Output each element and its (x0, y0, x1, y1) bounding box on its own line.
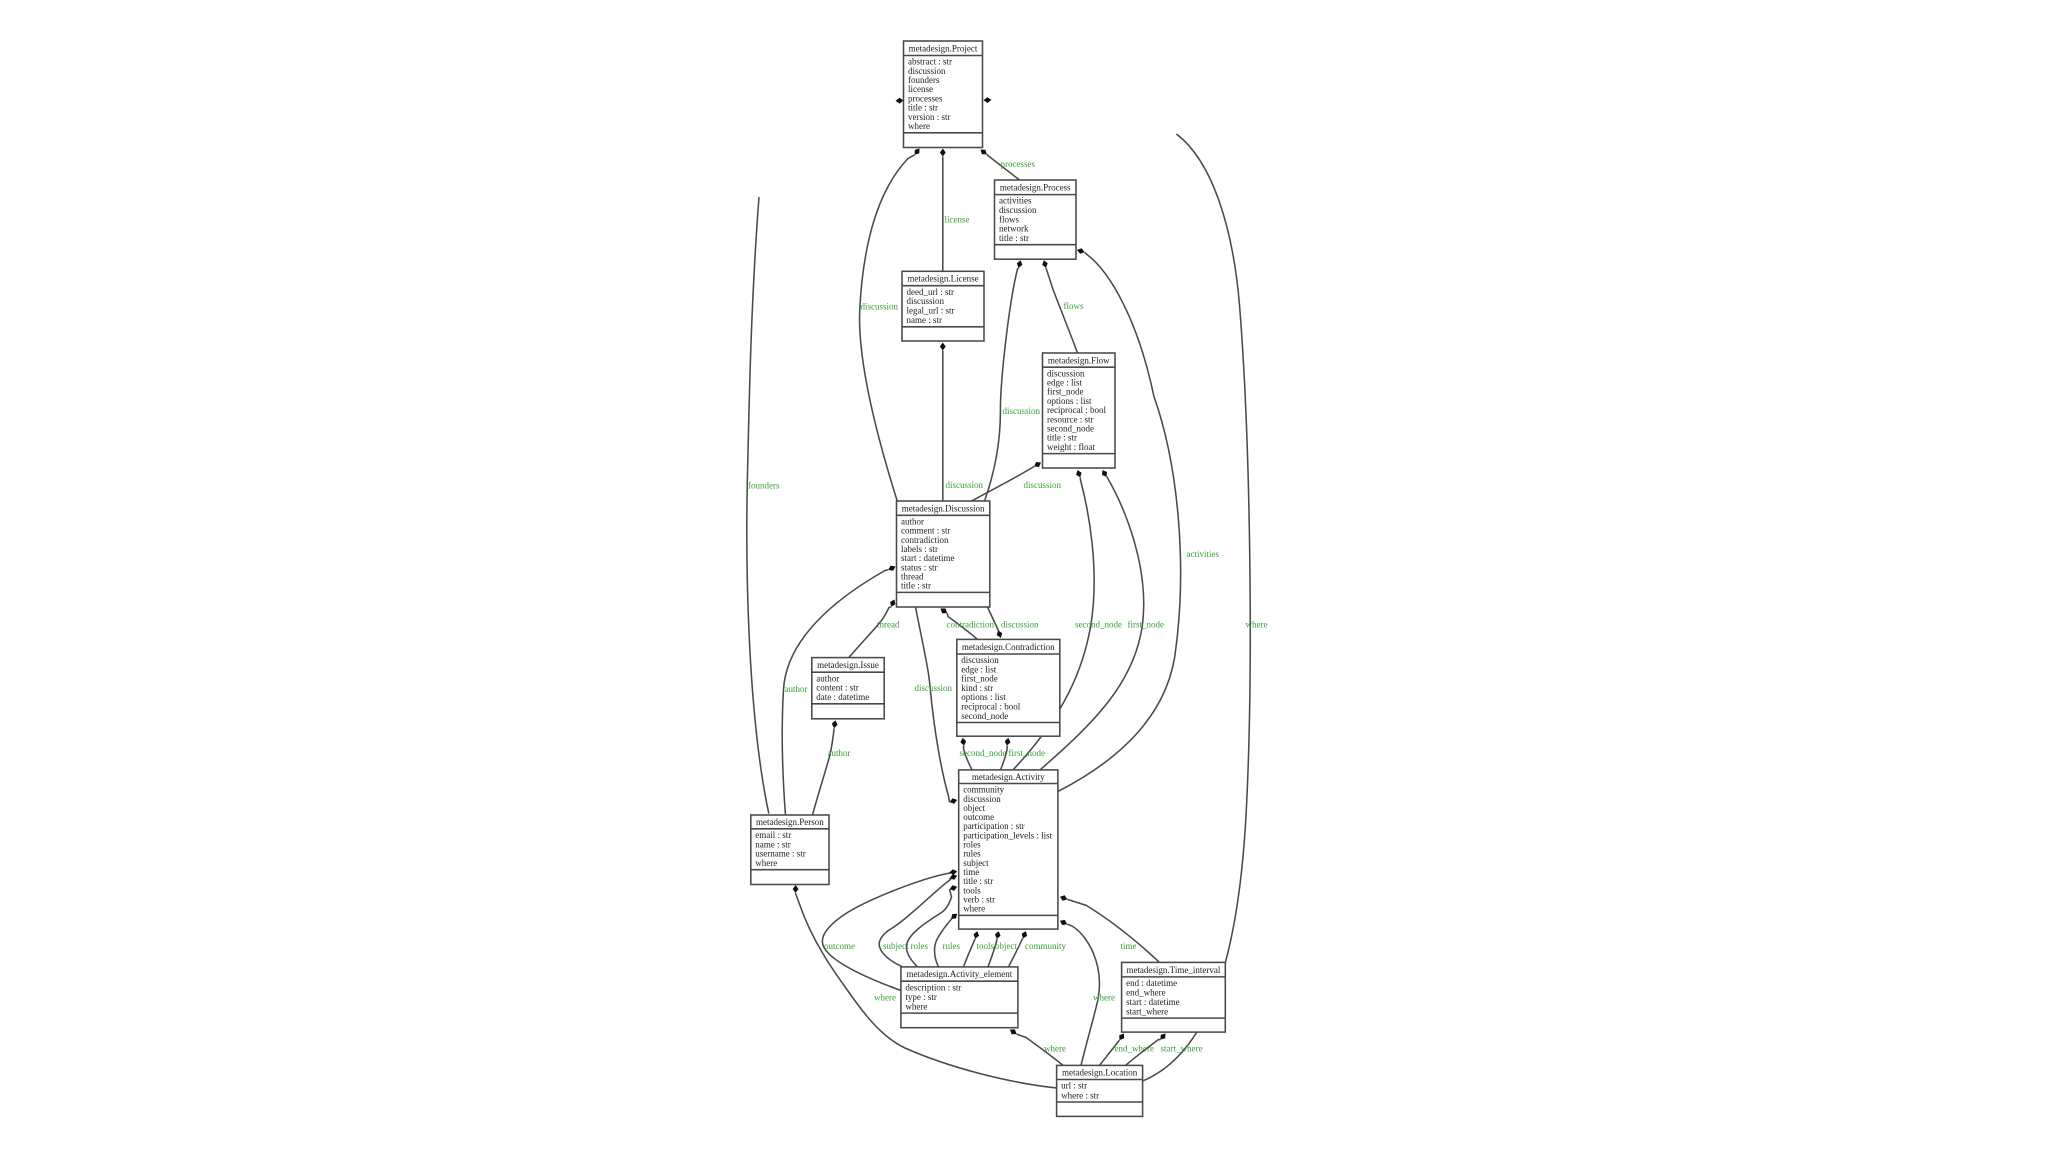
svg-text:where: where (1093, 993, 1115, 1003)
svg-text:type : str: type : str (905, 992, 937, 1002)
svg-text:where: where (1044, 1044, 1066, 1054)
svg-text:license: license (945, 215, 970, 225)
svg-text:discussion: discussion (915, 683, 953, 693)
svg-text:tools: tools (977, 941, 995, 951)
svg-text:metadesign.Activity: metadesign.Activity (972, 772, 1045, 782)
svg-text:object: object (995, 941, 1017, 951)
svg-text:end_where: end_where (1115, 1044, 1154, 1054)
edge flows Flow->Process (1042, 260, 1084, 353)
edge outcome Activity_element->Activity (822, 869, 957, 990)
class metadesign.Project (904, 41, 983, 148)
svg-text:metadesign.Location: metadesign.Location (1062, 1068, 1138, 1078)
class metadesign.Location (1057, 1065, 1143, 1116)
edge discussion Discussion->Flow (972, 462, 1062, 501)
class metadesign.Flow (1043, 353, 1116, 468)
edge where Location->Person (793, 885, 1057, 1088)
svg-text:flows: flows (1064, 301, 1084, 311)
edge rules Activity_element->Activity (935, 914, 961, 967)
edge where Location->Project (984, 97, 1268, 1081)
svg-text:discussion: discussion (1024, 480, 1062, 490)
svg-text:url : str: url : str (1061, 1081, 1087, 1091)
edge author Person->Discussion (782, 566, 895, 815)
svg-text:activities: activities (1187, 549, 1220, 559)
edge discussion Discussion->Process (985, 260, 1041, 501)
svg-text:roles: roles (911, 941, 929, 951)
edge license License->Project (940, 149, 970, 272)
edge discussion Discussion->Activity (915, 607, 958, 804)
edge roles Activity_element->Activity (906, 885, 957, 967)
svg-text:where: where (1246, 620, 1268, 630)
edge community Activity_element->Activity (1009, 931, 1067, 967)
edge founders Person->Project (747, 98, 904, 814)
edge activities Activity->Process (1058, 248, 1220, 791)
svg-text:discussion: discussion (1001, 620, 1039, 630)
svg-text:weight : float: weight : float (1047, 442, 1095, 452)
svg-text:where: where (755, 858, 777, 868)
svg-text:where: where (874, 993, 896, 1003)
svg-text:time: time (1121, 941, 1137, 951)
svg-text:founders: founders (748, 481, 780, 491)
svg-text:discussion: discussion (907, 296, 945, 306)
edge first_node Activity->Flow (1040, 470, 1164, 770)
edge where Location->Activity (1060, 920, 1115, 1066)
svg-text:discussion: discussion (1003, 406, 1041, 416)
svg-text:second_node: second_node (960, 748, 1007, 758)
svg-text:second_node: second_node (1075, 620, 1122, 630)
svg-text:metadesign.Contradiction: metadesign.Contradiction (962, 642, 1055, 652)
svg-text:discussion: discussion (861, 302, 899, 312)
class metadesign.Process (995, 180, 1077, 259)
svg-text:rules: rules (943, 941, 961, 951)
svg-text:author: author (785, 684, 808, 694)
svg-text:metadesign.License: metadesign.License (907, 274, 978, 284)
svg-text:end : datetime: end : datetime (1126, 978, 1177, 988)
svg-text:processes: processes (1001, 159, 1036, 169)
svg-text:author: author (828, 748, 851, 758)
edge tools Activity_element->Activity (964, 931, 995, 967)
edge end_where Location->Time_interval (1100, 1034, 1154, 1066)
svg-text:where: where (905, 1001, 927, 1011)
svg-text:metadesign.Issue: metadesign.Issue (817, 660, 879, 670)
svg-text:start : datetime: start : datetime (1126, 997, 1179, 1007)
svg-text:first_node: first_node (1128, 620, 1165, 630)
edge discussion Discussion->Contradiction (988, 607, 1040, 638)
edge discussion Discussion->License (940, 343, 984, 502)
class metadesign.Person (751, 815, 829, 885)
edge time Time_interval->Activity (1060, 895, 1160, 962)
svg-text:start_where: start_where (1161, 1044, 1203, 1054)
svg-text:outcome: outcome (824, 941, 855, 951)
svg-text:thread: thread (877, 620, 900, 630)
svg-text:where : str: where : str (1061, 1090, 1099, 1100)
svg-text:date : datetime: date : datetime (816, 692, 869, 702)
svg-text:metadesign.Time_interval: metadesign.Time_interval (1126, 965, 1220, 975)
edge where Location->Activity_element (1010, 1029, 1066, 1065)
svg-text:discussion: discussion (946, 480, 984, 490)
edge first_node Activity->Contradiction (1001, 738, 1046, 770)
edge discussion Discussion->Project (860, 149, 920, 504)
edge second_node Activity->Flow (1013, 470, 1122, 770)
svg-text:where: where (908, 121, 930, 131)
class metadesign.Activity (959, 770, 1058, 929)
class metadesign.Activity_element (901, 967, 1018, 1028)
svg-text:title : str: title : str (901, 581, 931, 591)
svg-text:metadesign.Flow: metadesign.Flow (1048, 355, 1110, 365)
svg-text:subject: subject (883, 941, 909, 951)
svg-text:title : str: title : str (999, 233, 1029, 243)
class metadesign.Contradiction (957, 639, 1060, 736)
class metadesign.Issue (812, 658, 884, 719)
edge author Person->Issue (813, 720, 851, 815)
class metadesign.License (902, 271, 984, 341)
svg-text:contradiction: contradiction (947, 620, 995, 630)
svg-text:start_where: start_where (1126, 1006, 1168, 1016)
svg-text:metadesign.Discussion: metadesign.Discussion (902, 503, 985, 513)
svg-text:second_node: second_node (961, 711, 1008, 721)
svg-text:first_node: first_node (1009, 748, 1046, 758)
svg-text:metadesign.Activity_element: metadesign.Activity_element (907, 969, 1013, 979)
svg-text:metadesign.Project: metadesign.Project (909, 44, 978, 54)
edge subject Activity_element->Activity (879, 874, 957, 967)
edge start_where Location->Time_interval (1126, 1034, 1203, 1066)
svg-text:description : str: description : str (905, 982, 961, 992)
edge thread Issue->Discussion (849, 600, 900, 658)
edge contradiction Contradiction->Discussion (941, 608, 995, 639)
edge second_node Activity->Contradiction (960, 738, 1007, 770)
edge processes Process->Project (981, 150, 1036, 181)
svg-text:metadesign.Process: metadesign.Process (1000, 183, 1071, 193)
edge object Activity_element->Activity (988, 931, 1017, 967)
svg-text:where: where (963, 904, 985, 914)
svg-text:community: community (1025, 941, 1066, 951)
class metadesign.Time_interval (1122, 962, 1226, 1032)
class metadesign.Discussion (897, 501, 990, 607)
svg-text:name : str: name : str (907, 315, 943, 325)
svg-text:metadesign.Person: metadesign.Person (756, 817, 824, 827)
